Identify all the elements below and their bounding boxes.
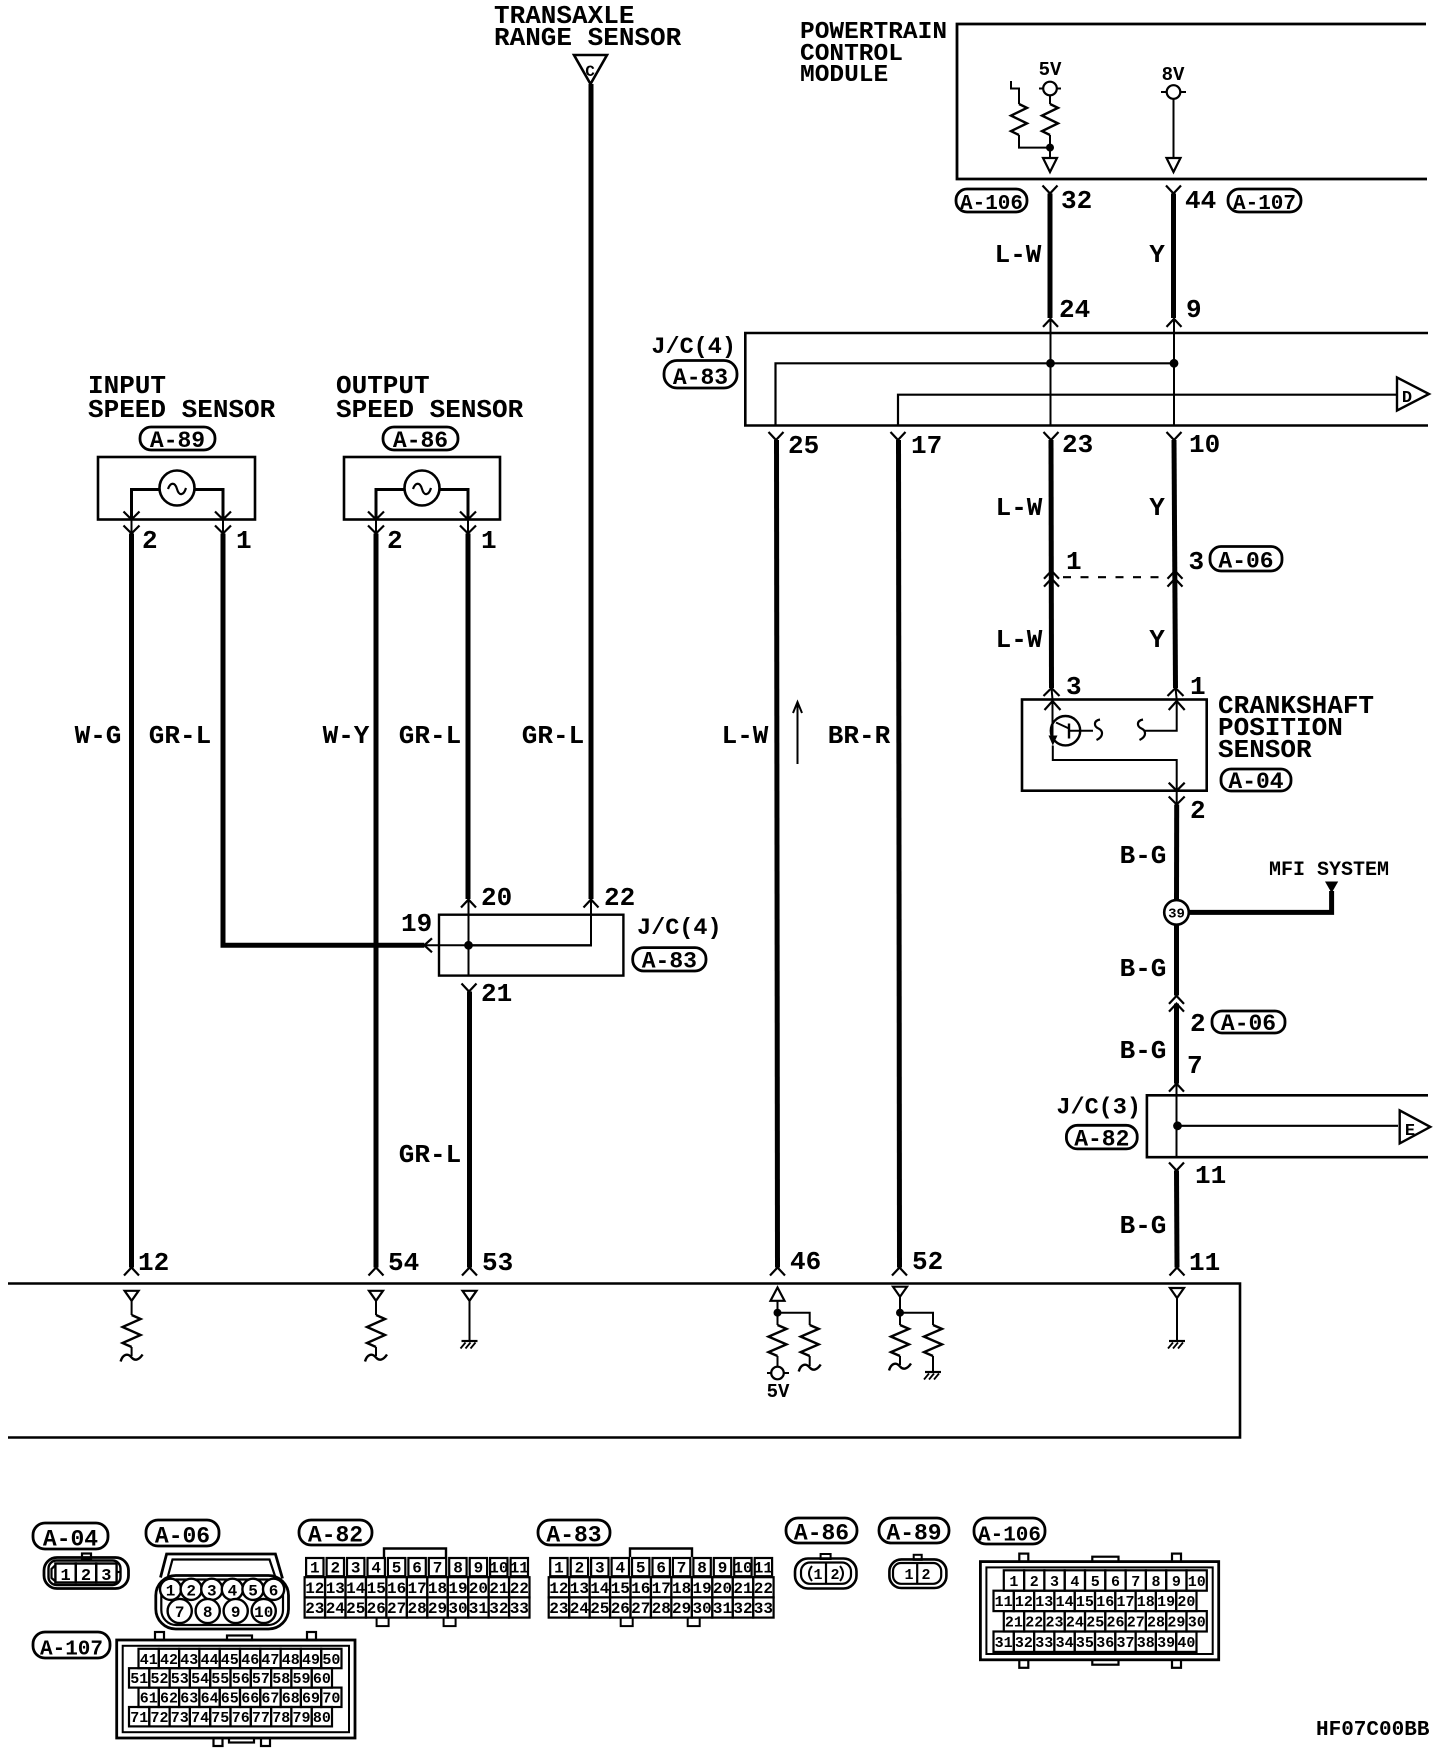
svg-text:57: 57 [252, 1671, 270, 1688]
svg-text:2: 2 [575, 1560, 585, 1578]
svg-text:33: 33 [754, 1600, 773, 1618]
pin arrow 11 (below J/C(3)) [1169, 1163, 1184, 1171]
svg-text:9: 9 [718, 1560, 728, 1578]
svg-text:24: 24 [326, 1600, 346, 1618]
svg-text:62: 62 [160, 1691, 178, 1708]
svg-text:46: 46 [790, 1247, 821, 1277]
svg-text:28: 28 [652, 1600, 671, 1618]
wire 20 inside J/C(4) [468, 900, 470, 946]
PCM pin 54 triangle [369, 1291, 383, 1301]
svg-text:32: 32 [489, 1600, 508, 1618]
svg-text:51: 51 [130, 1671, 148, 1688]
svg-text:L-W: L-W [722, 721, 769, 751]
svg-text:54: 54 [191, 1671, 209, 1688]
wire W-G (input pin2 to PCM 12) [129, 534, 134, 1268]
svg-text:59: 59 [292, 1671, 310, 1688]
pin arrows 1 (output sensor) [460, 512, 476, 520]
svg-text:14: 14 [1056, 1594, 1074, 1611]
pin arrow 1 (CKP) [1168, 688, 1184, 696]
svg-text:10: 10 [733, 1560, 752, 1578]
svg-text:24: 24 [570, 1600, 590, 1618]
pill A-82 [299, 1520, 372, 1545]
svg-text:1: 1 [481, 526, 497, 556]
svg-text:6: 6 [656, 1560, 666, 1578]
svg-text:31: 31 [995, 1635, 1013, 1652]
svg-text:2: 2 [142, 526, 158, 556]
svg-text:Y: Y [1149, 625, 1165, 655]
svg-text:64: 64 [201, 1691, 219, 1708]
svg-text:25: 25 [788, 431, 819, 461]
svg-text:5V: 5V [767, 1381, 790, 1403]
svg-text:A-89: A-89 [886, 1521, 941, 1547]
resistor R8 [924, 1325, 942, 1356]
junction box J/C(3) A-82 [1147, 1095, 1428, 1157]
svg-text:11: 11 [510, 1560, 529, 1578]
svg-text:29: 29 [1167, 1615, 1185, 1632]
chassis ground (pin 52 branch) [925, 1371, 941, 1373]
wire 23 inside J/C(4) [1050, 363, 1052, 425]
wire 9 inside J/C(4) [1173, 319, 1175, 363]
pill A-83 (top) [664, 361, 737, 389]
PCM lower box [8, 1284, 1240, 1438]
pill A-04 [33, 1523, 108, 1549]
svg-text:25: 25 [1086, 1615, 1104, 1632]
svg-text:22: 22 [510, 1580, 529, 1598]
wire GR-L from transaxle range sensor [589, 84, 594, 899]
svg-text:4: 4 [371, 1560, 381, 1578]
svg-text:SPEED SENSOR: SPEED SENSOR [336, 395, 524, 425]
svg-text:13: 13 [326, 1580, 345, 1598]
CKP internal wire pin1 [1145, 700, 1177, 731]
wire B-G (node 39 to A-06 2) [1174, 925, 1179, 996]
svg-text:35: 35 [1076, 1635, 1094, 1652]
svg-text:4: 4 [1070, 1574, 1079, 1591]
pin arrow 9 [1167, 319, 1182, 327]
wire pin54 to R4 [375, 1301, 377, 1315]
svg-text:2: 2 [330, 1560, 340, 1578]
svg-text:47: 47 [261, 1652, 279, 1669]
junction box J/C(4) A-83 (top) [745, 333, 1428, 426]
svg-text:49: 49 [302, 1652, 320, 1669]
svg-text:18: 18 [1137, 1594, 1155, 1611]
svg-text:23: 23 [1045, 1615, 1063, 1632]
svg-text:19: 19 [692, 1580, 711, 1598]
svg-text:32: 32 [1015, 1635, 1033, 1652]
svg-text:MODULE: MODULE [800, 62, 888, 89]
pin arrow 21 [462, 984, 477, 992]
pill A-89 [879, 1518, 949, 1543]
svg-text:GR-L: GR-L [149, 721, 211, 751]
svg-text:27: 27 [387, 1600, 406, 1618]
svg-text:8: 8 [1151, 1574, 1160, 1591]
pin arrow 7 [1169, 1084, 1184, 1092]
wire 19 inside J/C(4) [424, 944, 465, 946]
junction bus inside middle J/C(4) [465, 944, 592, 946]
pill A-106 [974, 1518, 1045, 1544]
wire 10 inside J/C(4) [1173, 363, 1175, 425]
wire B-G (A-06 2 to J/C(3) 7) [1174, 1004, 1179, 1084]
svg-text:61: 61 [140, 1691, 158, 1708]
pill A-107 [33, 1632, 110, 1658]
svg-text:77: 77 [252, 1710, 270, 1727]
svg-text:68: 68 [282, 1691, 300, 1708]
junction node 24/23/25 [1046, 359, 1055, 368]
pin arrow 32 [1043, 186, 1058, 194]
svg-text:16: 16 [631, 1580, 650, 1598]
PCM pin 52 triangle [893, 1287, 907, 1297]
off-page connector D (triangle) [1397, 378, 1429, 411]
svg-text:30: 30 [448, 1600, 467, 1618]
wire pin12 to R3 [131, 1301, 133, 1315]
svg-text:55: 55 [211, 1671, 229, 1688]
svg-text:8V: 8V [1162, 64, 1185, 86]
svg-text:20: 20 [469, 1580, 488, 1598]
pill A-06 [146, 1520, 219, 1546]
connector A-04 cells 1-3 [55, 1564, 75, 1583]
wire W-Y (output pin2 to PCM 54) [374, 534, 379, 1268]
branch wire 46 [778, 1313, 810, 1325]
pill A-106 (schematic) [956, 189, 1027, 212]
svg-text:7: 7 [1131, 1574, 1140, 1591]
svg-text:B-G: B-G [1120, 841, 1167, 871]
wire to pin 32 [1049, 148, 1051, 158]
svg-text:RANGE SENSOR: RANGE SENSOR [494, 23, 682, 53]
wire 7 inside J/C(3) [1176, 1084, 1178, 1126]
svg-text:13: 13 [570, 1580, 589, 1598]
svg-text:A-82: A-82 [1074, 1127, 1129, 1153]
chassis ground (pin 53) [462, 1340, 478, 1342]
output sensor internal wire pin2 [376, 490, 405, 520]
wire pin11 to ground [1176, 1298, 1178, 1340]
wire BR-R (J/C(4) 17 to PCM 52) [899, 440, 900, 1268]
svg-text:28: 28 [407, 1600, 426, 1618]
pin arrow 46 [770, 1268, 785, 1276]
svg-text:8: 8 [697, 1560, 707, 1578]
svg-text:52: 52 [150, 1671, 168, 1688]
CKP pin 2 exit arrow [1169, 783, 1185, 791]
svg-text:2: 2 [1190, 796, 1206, 826]
CKP internal wire pin3 [1052, 700, 1054, 738]
pin arrow 10 [1167, 432, 1182, 440]
svg-text:L-W: L-W [996, 493, 1043, 523]
svg-text:45: 45 [221, 1652, 239, 1669]
svg-text:21: 21 [489, 1580, 508, 1598]
svg-text:60: 60 [313, 1671, 331, 1688]
svg-text:A-83: A-83 [642, 949, 697, 975]
svg-text:A-06: A-06 [1218, 549, 1273, 575]
input speed sensor AC source U1 [160, 471, 195, 506]
connector pill A-86 (schematic) [383, 427, 458, 450]
svg-text:A-06: A-06 [1221, 1011, 1276, 1037]
off-page connector E (triangle) [1400, 1110, 1431, 1143]
svg-text:20: 20 [713, 1580, 732, 1598]
inline connector A-06 pin2 arrows [1169, 996, 1184, 1004]
svg-text:53: 53 [171, 1671, 189, 1688]
junction bus 2 inside top J/C(4) to D [898, 395, 1397, 426]
svg-text:18: 18 [428, 1580, 447, 1598]
svg-text:7: 7 [433, 1560, 443, 1578]
svg-text:14: 14 [346, 1580, 366, 1598]
svg-text:3: 3 [101, 1567, 111, 1586]
svg-text:A-04: A-04 [43, 1526, 98, 1552]
svg-text:11: 11 [995, 1594, 1013, 1611]
CKP pin 1 entry arrow [1169, 701, 1185, 710]
svg-text:A-04: A-04 [1228, 769, 1283, 795]
svg-text:37: 37 [1116, 1635, 1134, 1652]
svg-text:19: 19 [448, 1580, 467, 1598]
resistor R7 [891, 1325, 909, 1356]
connector A-06 cells 1-10 [160, 1579, 181, 1600]
junction node (19/20/21/22) [464, 941, 473, 950]
svg-text:2: 2 [1190, 1009, 1206, 1039]
pin arrow 2 (below CKP) [1169, 797, 1185, 805]
resistor R2 (PCM pull-up) [1042, 104, 1058, 135]
svg-text:19: 19 [401, 909, 432, 939]
svg-text:17: 17 [407, 1580, 426, 1598]
svg-text:31: 31 [469, 1600, 488, 1618]
PCM pin 11 triangle [1170, 1288, 1184, 1298]
CKP pin 3 entry arrow [1045, 701, 1061, 710]
svg-text:7: 7 [1187, 1051, 1203, 1081]
svg-text:15: 15 [367, 1580, 386, 1598]
svg-text:48: 48 [282, 1652, 300, 1669]
wire GR-L (J/C(4) 21 to PCM 53) [467, 992, 472, 1268]
powertrain control module box [957, 24, 1427, 179]
connector A-82 view [384, 1549, 446, 1558]
wire pin46 node [777, 1301, 779, 1325]
pin arrow 53 [462, 1268, 477, 1276]
chassis ground (pin 11) [1169, 1340, 1185, 1342]
PCM pin 46 triangle [771, 1288, 785, 1301]
transistor base wire [1069, 730, 1093, 732]
svg-text:13: 13 [1035, 1594, 1053, 1611]
svg-text:W-G: W-G [75, 721, 122, 751]
inline connector A-06 pin3 arrows [1168, 571, 1183, 579]
input speed sensor box [98, 457, 255, 520]
svg-text:1: 1 [310, 1560, 320, 1578]
svg-text:14: 14 [590, 1580, 610, 1598]
svg-text:1: 1 [166, 1582, 176, 1600]
flow direction arrow [797, 702, 799, 764]
svg-text:A-107: A-107 [40, 1638, 103, 1661]
wire GR-L (output pin1 to J/C(4) 20) [466, 534, 471, 900]
svg-text:34: 34 [1056, 1635, 1074, 1652]
svg-text:1: 1 [554, 1560, 564, 1578]
svg-text:9: 9 [474, 1560, 484, 1578]
svg-text:26: 26 [1106, 1615, 1124, 1632]
svg-text:20: 20 [481, 883, 512, 913]
output speed sensor box [344, 457, 500, 520]
svg-text:5: 5 [1091, 1574, 1100, 1591]
svg-text:6: 6 [1111, 1574, 1120, 1591]
junction node R1/R2 [1046, 144, 1054, 152]
wire Y (J/C(4) 10 to CKP 1) [1174, 440, 1176, 688]
svg-text:18: 18 [672, 1580, 691, 1598]
svg-text:9: 9 [1186, 295, 1202, 325]
pin arrow 3 (CKP) [1044, 688, 1060, 696]
svg-text:A-106: A-106 [978, 1524, 1041, 1547]
svg-text:2: 2 [830, 1567, 839, 1584]
svg-text:66: 66 [241, 1691, 259, 1708]
svg-text:3: 3 [595, 1560, 605, 1578]
svg-text:17: 17 [911, 431, 942, 461]
svg-text:27: 27 [631, 1600, 650, 1618]
pin arrow 20 [461, 900, 476, 908]
svg-text:39: 39 [1168, 907, 1185, 923]
wire R7 end [899, 1356, 901, 1365]
svg-text:26: 26 [367, 1600, 386, 1618]
pill A-82 (schematic) [1066, 1125, 1137, 1149]
splice node 39 [1164, 900, 1189, 925]
svg-text:15: 15 [1076, 1594, 1094, 1611]
svg-text:BR-R: BR-R [828, 721, 891, 751]
svg-text:1: 1 [236, 526, 252, 556]
wire GR-L (input pin1 to J/C(4) 19) [223, 534, 424, 946]
svg-text:53: 53 [482, 1248, 513, 1278]
connector pill A-89 (schematic) [140, 427, 215, 450]
input sensor internal wire pin1 [195, 490, 224, 520]
svg-text:24: 24 [1059, 295, 1090, 325]
svg-text:78: 78 [272, 1710, 290, 1727]
svg-text:22: 22 [604, 883, 635, 913]
pin arrows 2 (output sensor) [368, 512, 384, 520]
svg-text:43: 43 [180, 1652, 198, 1669]
svg-text:12: 12 [1015, 1594, 1033, 1611]
wire 8V to pin 44 [1173, 99, 1175, 158]
pin arrow 24 [1043, 319, 1058, 327]
svg-text:A-86: A-86 [794, 1521, 849, 1547]
junction box J/C(4) A-83 (middle) [439, 915, 623, 976]
svg-text:GR-L: GR-L [399, 1140, 461, 1170]
svg-text:22: 22 [754, 1580, 773, 1598]
svg-text:58: 58 [272, 1671, 290, 1688]
svg-text:40: 40 [1177, 1635, 1195, 1652]
svg-text:GR-L: GR-L [399, 721, 461, 751]
output sensor internal wire pin1 [440, 490, 469, 520]
svg-text:1: 1 [813, 1567, 822, 1584]
svg-text:A-82: A-82 [308, 1523, 363, 1549]
wire 5V to R2 [1049, 95, 1051, 104]
wire pin53 to ground [469, 1301, 471, 1340]
branch wire 52 [900, 1313, 933, 1325]
svg-text:2: 2 [1030, 1574, 1039, 1591]
connector A-06 view outline [161, 1554, 283, 1579]
wire-end hook R7 [889, 1364, 911, 1371]
svg-text:2: 2 [387, 526, 403, 556]
svg-text:80: 80 [313, 1710, 331, 1727]
svg-text:3: 3 [207, 1582, 217, 1600]
svg-text:25: 25 [590, 1600, 609, 1618]
svg-text:5V: 5V [1039, 59, 1062, 81]
svg-text:50: 50 [322, 1652, 340, 1669]
svg-text:21: 21 [1005, 1615, 1023, 1632]
wire R8 to ground [932, 1356, 934, 1371]
svg-text:5: 5 [636, 1560, 646, 1578]
svg-text:33: 33 [510, 1600, 529, 1618]
svg-text:30: 30 [1188, 1615, 1206, 1632]
pin arrow 23 [1044, 432, 1059, 440]
svg-text:10: 10 [1189, 430, 1220, 460]
svg-text:7: 7 [175, 1604, 185, 1622]
svg-text:A-83: A-83 [673, 365, 728, 391]
svg-text:46: 46 [241, 1652, 259, 1669]
svg-text:63: 63 [180, 1691, 198, 1708]
svg-text:31: 31 [713, 1600, 732, 1618]
pin arrow 19 (left chevron) [424, 938, 432, 952]
svg-text:A-107: A-107 [1233, 193, 1296, 216]
resistor R3 [123, 1315, 141, 1347]
wire B-G (CKP 2 to node 39) [1174, 805, 1179, 901]
pin arrow 54 [369, 1268, 384, 1276]
connector A-106 cells 1-40 [1004, 1570, 1024, 1590]
svg-text:HF07C00BB: HF07C00BB [1316, 1719, 1430, 1742]
svg-text:16: 16 [387, 1580, 406, 1598]
svg-text:1: 1 [1190, 672, 1206, 702]
pill A-86 [786, 1518, 857, 1543]
stub to resistor R1 [1011, 81, 1019, 104]
pin arrows 1 (input sensor) [215, 512, 231, 520]
svg-text:9: 9 [231, 1604, 241, 1622]
svg-text:11: 11 [1189, 1248, 1220, 1278]
PCM pin 53 triangle [463, 1291, 477, 1301]
wire R6 end [809, 1356, 811, 1366]
pill A-107 (schematic) [1228, 189, 1301, 212]
output speed sensor AC source U2 [405, 471, 440, 506]
svg-text:36: 36 [1096, 1635, 1114, 1652]
wire B-G (J/C(3) 11 to PCM 11) [1174, 1171, 1180, 1268]
junction node pin52 [896, 1309, 904, 1317]
svg-text:5: 5 [392, 1560, 402, 1578]
svg-text:23: 23 [1062, 430, 1093, 460]
svg-text:29: 29 [672, 1600, 691, 1618]
pill A-04 (schematic) [1221, 769, 1291, 791]
svg-text:6: 6 [412, 1560, 422, 1578]
svg-text:11: 11 [1195, 1161, 1226, 1191]
pin arrow 22 into J/C(4) [584, 900, 599, 908]
svg-text:21: 21 [733, 1580, 752, 1598]
svg-text:SENSOR: SENSOR [1218, 735, 1312, 765]
transistor Q1 (hall element) [1051, 716, 1080, 745]
svg-text:72: 72 [150, 1710, 168, 1727]
svg-text:12: 12 [305, 1580, 324, 1598]
wire 24 inside J/C(4) [1050, 319, 1052, 363]
svg-text:71: 71 [130, 1710, 148, 1727]
wire pin52 node [899, 1297, 901, 1325]
svg-text:SPEED SENSOR: SPEED SENSOR [88, 395, 276, 425]
junction node 7/11 [1173, 1121, 1182, 1130]
svg-text:28: 28 [1147, 1615, 1165, 1632]
svg-text:32: 32 [1061, 186, 1092, 216]
svg-text:24: 24 [1066, 1615, 1084, 1632]
svg-text:1: 1 [60, 1567, 70, 1586]
junction bus 1 inside top J/C(4) [776, 363, 1175, 425]
resistor R5 [769, 1325, 787, 1356]
svg-text:21: 21 [481, 979, 512, 1009]
connector A-89 view [889, 1559, 946, 1588]
svg-text:30: 30 [692, 1600, 711, 1618]
svg-text:70: 70 [322, 1691, 340, 1708]
resistor R6 [801, 1325, 819, 1356]
svg-text:A-106: A-106 [960, 193, 1023, 216]
svg-text:29: 29 [428, 1600, 447, 1618]
svg-text:41: 41 [140, 1652, 158, 1669]
svg-text:65: 65 [221, 1691, 239, 1708]
svg-text:4: 4 [228, 1582, 238, 1600]
svg-text:7: 7 [677, 1560, 687, 1578]
svg-text:17: 17 [1116, 1594, 1134, 1611]
svg-text:44: 44 [201, 1652, 219, 1669]
connector A-86 view [795, 1559, 857, 1589]
